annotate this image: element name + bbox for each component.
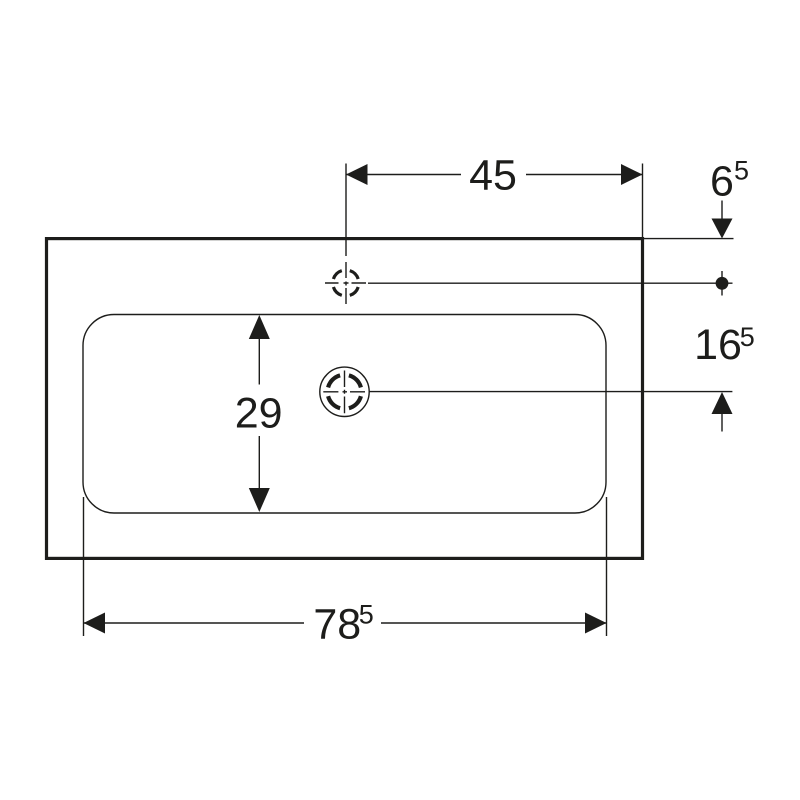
svg-text:6: 6 [710, 158, 734, 206]
svg-text:5: 5 [734, 156, 749, 186]
svg-text:78: 78 [313, 601, 361, 649]
svg-text:29: 29 [235, 390, 283, 438]
svg-text:5: 5 [740, 322, 755, 352]
svg-text:45: 45 [469, 152, 517, 200]
svg-text:5: 5 [359, 600, 374, 630]
svg-text:16: 16 [694, 321, 742, 369]
